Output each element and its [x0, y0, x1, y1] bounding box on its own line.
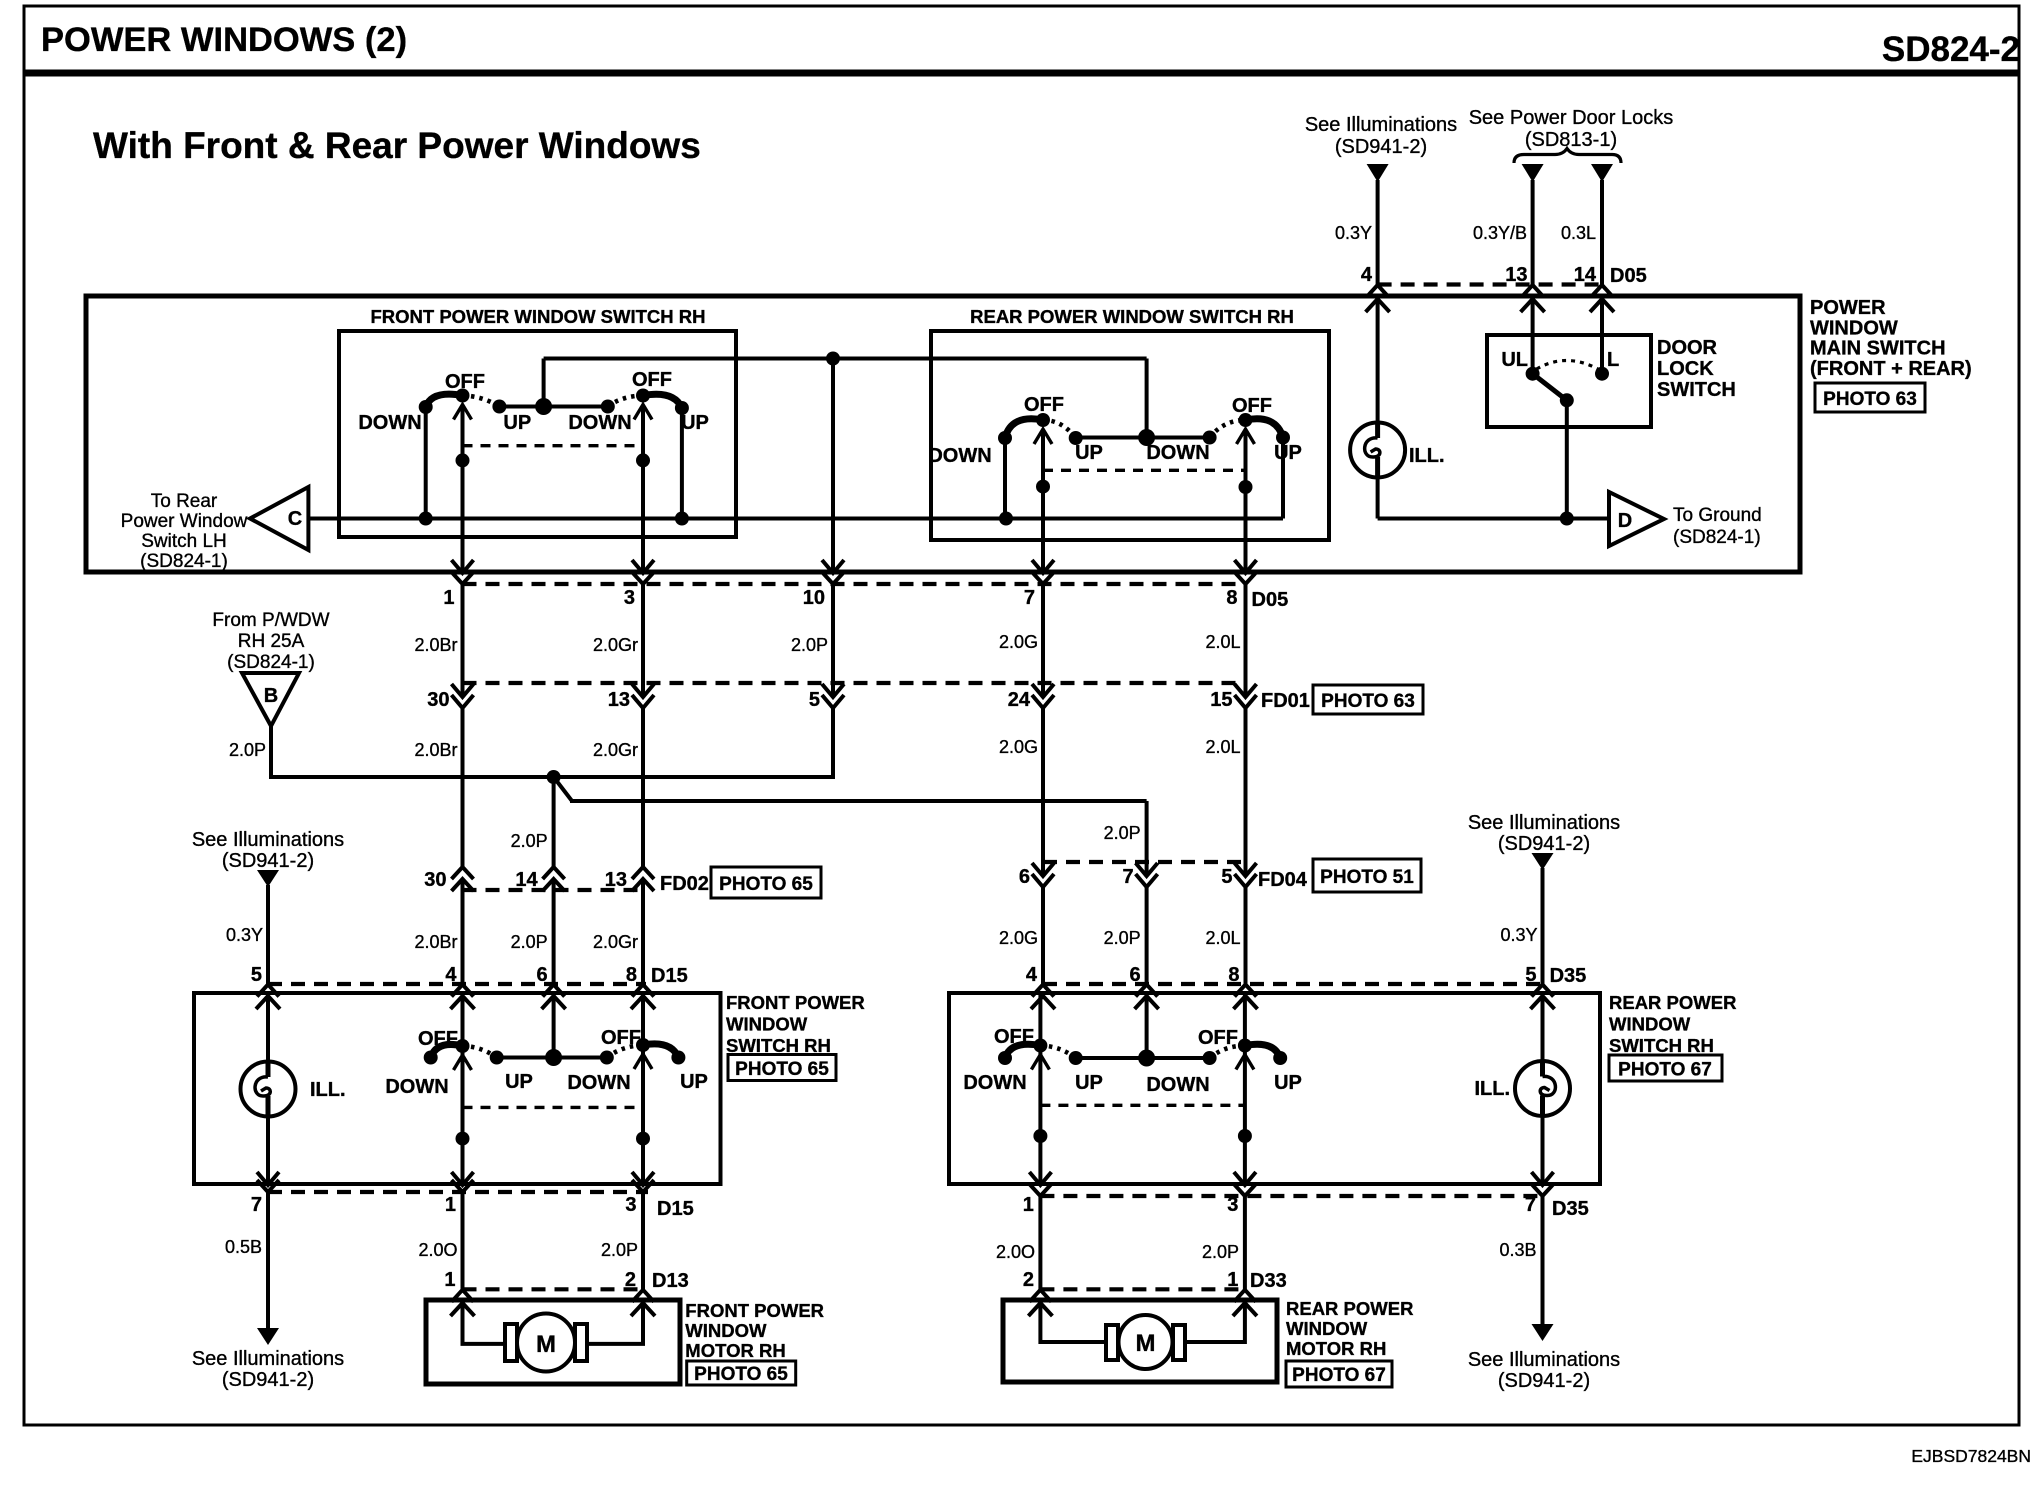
svg-text:2.0P: 2.0P	[1202, 1242, 1239, 1262]
svg-text:PHOTO 63: PHOTO 63	[1823, 389, 1917, 410]
svg-text:2.0Gr: 2.0Gr	[593, 740, 638, 760]
door lock switch label L	[1607, 349, 1619, 371]
label REAR POWER WINDOW SWITCH RH	[1609, 992, 1736, 1056]
svg-text:DOOR: DOOR	[1657, 337, 1718, 359]
rear door switch 1 OFF lever	[994, 1026, 1047, 1058]
svg-text:D35: D35	[1550, 965, 1587, 987]
svg-text:2.0L: 2.0L	[1205, 737, 1240, 757]
D15 pin 3 lower	[625, 1172, 654, 1216]
D05 pin 1	[443, 560, 473, 609]
wire D35 5 to rear lamp	[1541, 993, 1545, 1061]
page ref See Illuminations (SD941-2) left	[192, 829, 344, 872]
svg-text:ILL.: ILL.	[1474, 1078, 1510, 1100]
svg-text:14: 14	[515, 869, 538, 891]
FD01 pin 5	[809, 684, 844, 711]
wire 2.0Br (FD02 30 to D15 4)	[414, 879, 462, 984]
svg-text:MOTOR RH: MOTOR RH	[685, 1340, 785, 1361]
svg-text:OFF: OFF	[1232, 395, 1272, 417]
front door switch 1 DOWN contact	[385, 1051, 448, 1099]
wire 2.0P (FD04 7 to D35 6)	[1104, 887, 1147, 984]
front switch 1 common wire to pin 1	[456, 405, 470, 573]
wire from top interconnect to D05 pin 10	[831, 359, 835, 573]
svg-text:OFF: OFF	[445, 371, 485, 393]
svg-text:(SD813-1): (SD813-1)	[1525, 129, 1617, 151]
rear switch 1 OFF lever	[1005, 394, 1064, 438]
front door link junction	[545, 993, 562, 1066]
D05 pin 10	[803, 560, 844, 609]
svg-text:RH 25A: RH 25A	[238, 631, 305, 652]
svg-text:2.0L: 2.0L	[1205, 632, 1240, 652]
rear link junction	[1138, 359, 1155, 447]
svg-text:2.0Gr: 2.0Gr	[593, 932, 638, 952]
PHOTO 65 tag (front switch)	[728, 1055, 836, 1081]
svg-text:3: 3	[1227, 1194, 1238, 1216]
svg-text:1: 1	[445, 1194, 456, 1216]
rear motor M	[1106, 1315, 1185, 1369]
page code SD824-2	[1882, 30, 2020, 69]
svg-text:5: 5	[251, 964, 262, 986]
diagram id EJBSD7824BN	[1911, 1446, 2031, 1466]
front door switch 2 common wire pin 8 to pin 3	[636, 993, 650, 1184]
PHOTO 63 tag (FD01)	[1313, 685, 1423, 714]
svg-text:DOWN: DOWN	[567, 1072, 630, 1094]
rear door switch 1 DOWN contact	[963, 1051, 1026, 1094]
svg-text:UP: UP	[680, 1071, 708, 1093]
front door switch 2 DOWN contact	[567, 1051, 630, 1095]
page title	[41, 21, 407, 59]
D05 pin 3	[624, 560, 654, 609]
arrow into wire 0.3Y/B	[1522, 164, 1544, 182]
rear UP1-DOWN2 link wire	[1076, 436, 1210, 440]
D35 pin 7 lower	[1525, 1172, 1554, 1216]
wire 2.0P (D05 10 to FD01 5)	[791, 584, 833, 697]
svg-text:10: 10	[803, 587, 825, 609]
svg-text:M: M	[536, 1331, 556, 1358]
rear switch 1 common wire to pin 7	[1036, 429, 1050, 572]
svg-text:LOCK: LOCK	[1657, 358, 1714, 380]
front switch 2 DOWN contact	[568, 400, 631, 435]
wire 2.0P (D15 3 to D13 2)	[601, 1192, 643, 1289]
svg-text:7: 7	[1024, 587, 1035, 609]
svg-text:D15: D15	[657, 1198, 694, 1220]
ground bus wire to connector C	[308, 512, 1283, 526]
svg-text:D15: D15	[651, 965, 688, 987]
wire 2.0Gr (D05 3 to FD01 13)	[593, 584, 643, 697]
svg-text:(SD824-1): (SD824-1)	[1673, 527, 1761, 548]
rear door switch 1 UP contact	[1040, 1046, 1102, 1095]
svg-text:1: 1	[1227, 1269, 1238, 1291]
arrow into wire 0.3Y	[1367, 164, 1389, 182]
ground wire lamp to connector D	[1378, 517, 1609, 521]
svg-text:(SD941-2): (SD941-2)	[222, 1369, 314, 1391]
connector B from P/WDW fuse	[242, 673, 299, 726]
svg-text:SWITCH RH: SWITCH RH	[726, 1035, 831, 1056]
wire 2.0P (feed to FD04 7)	[1104, 801, 1147, 876]
svg-text:4: 4	[445, 964, 457, 986]
wire 2.0Gr (FD02 13 to D15 8)	[593, 879, 643, 984]
rear switch 2 common wire to pin 8	[1239, 429, 1253, 572]
svg-text:2.0P: 2.0P	[601, 1240, 638, 1260]
svg-text:POWER: POWER	[1810, 297, 1886, 319]
svg-text:1: 1	[444, 1269, 455, 1291]
power window main switch box	[86, 296, 1800, 572]
door lock L contact	[1595, 296, 1609, 381]
svg-text:MAIN SWITCH: MAIN SWITCH	[1810, 338, 1946, 360]
svg-text:2.0Br: 2.0Br	[414, 932, 457, 952]
D15 pin 7 lower	[251, 1172, 279, 1216]
svg-text:(FRONT + REAR): (FRONT + REAR)	[1810, 358, 1972, 380]
svg-text:See Illuminations: See Illuminations	[1468, 812, 1620, 834]
svg-text:6: 6	[1019, 866, 1030, 888]
D15 pin 4 upper	[445, 964, 474, 1009]
svg-text:24: 24	[1008, 689, 1031, 711]
svg-text:PHOTO 63: PHOTO 63	[1321, 691, 1415, 712]
wire 0.3Y to D15 pin 5	[226, 885, 268, 984]
wire 2.0P (D35 3 to D33 1)	[1202, 1196, 1245, 1289]
door lock switch box	[1487, 335, 1651, 427]
door lock switch label UL	[1501, 349, 1528, 371]
svg-text:3: 3	[624, 587, 635, 609]
svg-text:(SD824-1): (SD824-1)	[140, 551, 228, 572]
D35 pin 4 upper	[1026, 964, 1055, 1009]
svg-text:0.3Y: 0.3Y	[226, 925, 263, 945]
svg-text:PHOTO 67: PHOTO 67	[1618, 1060, 1712, 1081]
wire 0.5B (D15 7 to illuminations)	[225, 1192, 268, 1328]
D35 pin 5 upper	[1525, 964, 1554, 1009]
svg-text:13: 13	[605, 869, 627, 891]
svg-text:PHOTO 51: PHOTO 51	[1320, 867, 1414, 888]
svg-text:REAR POWER: REAR POWER	[1609, 992, 1736, 1013]
rear door switch 2 UP contact	[1245, 1044, 1302, 1094]
svg-text:DOWN: DOWN	[1146, 442, 1209, 464]
svg-text:With Front & Rear Power Window: With Front & Rear Power Windows	[93, 125, 701, 166]
svg-text:OFF: OFF	[994, 1026, 1034, 1048]
svg-text:WINDOW: WINDOW	[1810, 317, 1898, 339]
svg-text:EJBSD7824BN: EJBSD7824BN	[1911, 1446, 2031, 1466]
svg-text:6: 6	[1129, 964, 1140, 986]
illumination lamp (front switch)	[241, 1062, 346, 1117]
svg-text:C: C	[288, 508, 302, 530]
rear switch 2 OFF lever	[1210, 395, 1272, 438]
svg-text:13: 13	[1505, 264, 1527, 286]
svg-text:FRONT POWER WINDOW SWITCH RH: FRONT POWER WINDOW SWITCH RH	[370, 306, 705, 327]
front door switch 1 common arrow	[454, 1055, 472, 1070]
svg-text:FD02: FD02	[660, 873, 709, 895]
wire lamp to ground bus	[1376, 478, 1380, 519]
wire 2.0O (D35 1 to D33 2)	[996, 1196, 1040, 1289]
label REAR POWER WINDOW MOTOR RH	[1286, 1298, 1413, 1359]
svg-text:8: 8	[1228, 964, 1239, 986]
page ref See Illuminations (SD941-2) bottom right	[1468, 1349, 1620, 1392]
wire 2.0G (FD04 6 to D35 4)	[999, 887, 1043, 984]
label DOOR LOCK SWITCH	[1657, 337, 1736, 401]
front UP1-DOWN2 link wire	[499, 405, 607, 409]
svg-text:See Illuminations: See Illuminations	[1468, 1349, 1620, 1371]
front switch 2 UP contact	[643, 394, 709, 518]
svg-text:FD04: FD04	[1258, 869, 1308, 891]
D05 pin 4	[1361, 264, 1390, 312]
svg-text:(SD941-2): (SD941-2)	[222, 850, 314, 872]
illumination lamp (rear switch)	[1474, 1061, 1570, 1116]
svg-text:2.0P: 2.0P	[1104, 823, 1141, 843]
svg-text:D: D	[1618, 510, 1632, 532]
FD01 pin 30	[427, 684, 473, 711]
rear switches mechanical link	[1043, 469, 1246, 472]
rear power window switch RH section box	[931, 306, 1329, 540]
svg-text:2: 2	[1023, 1269, 1034, 1291]
D05 pin 13	[1505, 264, 1544, 312]
connector FD02	[463, 873, 709, 895]
svg-text:2.0P: 2.0P	[1104, 928, 1141, 948]
svg-text:4: 4	[1361, 264, 1373, 286]
wire 2.0O (D15 1 to D13 1)	[418, 1192, 462, 1289]
connector D05 lower row	[463, 584, 1289, 611]
connector C to rear power window switch LH	[250, 487, 308, 550]
svg-text:Power Window: Power Window	[121, 511, 248, 532]
D05 pin 7	[1024, 560, 1054, 609]
front switch 2 common arrow	[634, 405, 652, 420]
connector D35 upper row	[1043, 965, 1586, 987]
front switch 2 OFF lever	[608, 369, 672, 407]
svg-text:2.0P: 2.0P	[229, 740, 266, 760]
rear door link junction	[1138, 993, 1155, 1067]
FD01 pin 24	[1008, 684, 1054, 711]
door lock lever	[1533, 374, 1574, 408]
svg-text:13: 13	[608, 689, 630, 711]
wire 2.0P (feed to FD02 14)	[511, 779, 554, 867]
front door switch 1 UP contact	[463, 1046, 533, 1093]
rear switch 1 common arrow	[1034, 429, 1052, 444]
page ref See Illuminations (SD941-2) right	[1468, 812, 1620, 855]
svg-text:DOWN: DOWN	[928, 445, 991, 467]
label From P/WDW RH 25A (SD824-1)	[212, 610, 329, 673]
front door switch 1 common wire pin 4 to pin 1	[456, 993, 470, 1184]
D35 pin 3 lower	[1227, 1172, 1256, 1216]
page ref See Illuminations (SD941-2) top	[1305, 114, 1457, 158]
PHOTO 63 tag (main switch)	[1815, 383, 1925, 412]
connector D33	[1040, 1270, 1286, 1292]
wire FD01 5 down to feed wire	[831, 708, 835, 779]
D35 pin 6 upper	[1129, 964, 1158, 1009]
svg-text:To Rear: To Rear	[151, 491, 218, 512]
connector D13	[463, 1270, 689, 1292]
page ref See Illuminations (SD941-2) bottom left	[192, 1348, 344, 1391]
wire 2.0G (FD01 24 to FD04 6)	[999, 708, 1043, 876]
diagram subtitle	[93, 125, 701, 166]
svg-text:OFF: OFF	[1198, 1027, 1238, 1049]
wire 0.3Y/B to D05 pin 13	[1473, 180, 1533, 285]
FD01 pin 15	[1210, 684, 1256, 711]
arrow to See Illuminations bottom left	[257, 1328, 279, 1345]
wire 2.0L (FD01 15 to FD04 5)	[1205, 708, 1245, 876]
PHOTO 67 tag (rear motor)	[1286, 1361, 1392, 1387]
wire 0.3B (D35 7 to illuminations)	[1499, 1196, 1542, 1324]
svg-text:UP: UP	[1075, 1072, 1103, 1094]
wire 2.0G (D05 7 to FD01 24)	[999, 584, 1043, 697]
svg-text:OFF: OFF	[632, 369, 672, 391]
svg-text:(SD941-2): (SD941-2)	[1498, 833, 1590, 855]
front switch 1 DOWN contact	[358, 400, 432, 519]
rear motor wire pin 2	[1040, 1300, 1106, 1342]
label To Rear Power Window Switch LH (SD824-1)	[121, 491, 248, 572]
svg-text:15: 15	[1210, 689, 1232, 711]
svg-text:(SD941-2): (SD941-2)	[1335, 136, 1427, 158]
rear power window switch RH box	[949, 993, 1600, 1184]
svg-text:2.0G: 2.0G	[999, 737, 1038, 757]
svg-text:3: 3	[625, 1194, 636, 1216]
svg-text:PHOTO 65: PHOTO 65	[735, 1059, 829, 1080]
front door UP1-DOWN2 link wire	[497, 1056, 607, 1060]
svg-text:DOWN: DOWN	[963, 1072, 1026, 1094]
svg-text:WINDOW: WINDOW	[685, 1320, 767, 1341]
wire D05 pin 4 to lamp	[1376, 296, 1380, 423]
rear switch 1 DOWN contact	[928, 431, 1012, 519]
PHOTO 67 tag (rear switch)	[1609, 1055, 1722, 1081]
svg-text:POWER WINDOWS (2): POWER WINDOWS (2)	[41, 21, 407, 59]
svg-text:FRONT POWER: FRONT POWER	[685, 1300, 824, 1321]
illumination lamp (main switch)	[1350, 423, 1444, 478]
front switch 2 common wire to pin 3	[636, 405, 650, 573]
rear switch 2 DOWN contact	[1146, 431, 1216, 465]
feed branch diagonal	[554, 777, 572, 801]
svg-text:UP: UP	[503, 412, 531, 434]
svg-text:(SD824-1): (SD824-1)	[227, 652, 315, 673]
svg-text:REAR POWER: REAR POWER	[1286, 1298, 1413, 1319]
svg-text:D33: D33	[1250, 1270, 1287, 1292]
svg-text:SWITCH RH: SWITCH RH	[1609, 1035, 1714, 1056]
svg-text:Switch LH: Switch LH	[141, 531, 227, 552]
FD02 pin 30	[424, 867, 473, 891]
svg-text:SWITCH: SWITCH	[1657, 379, 1736, 401]
label FRONT POWER WINDOW MOTOR RH	[685, 1300, 824, 1361]
svg-text:B: B	[264, 685, 278, 707]
svg-text:2.0P: 2.0P	[511, 831, 548, 851]
wire rear lamp to D35 7	[1541, 1116, 1545, 1184]
FD01 pin 13	[608, 684, 654, 711]
front power window motor RH box	[426, 1300, 680, 1384]
arrow to See Illuminations bottom right	[1532, 1324, 1554, 1341]
FD04 pin 6	[1019, 863, 1054, 888]
wire 2.0P from B	[229, 726, 271, 779]
svg-text:DOWN: DOWN	[568, 412, 631, 434]
svg-text:30: 30	[424, 869, 446, 891]
svg-text:DOWN: DOWN	[358, 412, 421, 434]
svg-text:0.3B: 0.3B	[1499, 1240, 1536, 1260]
D33 pin 2	[1023, 1269, 1053, 1316]
rear door UP1-DOWN2 link wire	[1076, 1056, 1210, 1060]
svg-text:D05: D05	[1252, 589, 1289, 611]
svg-text:FD01: FD01	[1261, 690, 1310, 712]
feed wire B to column 2.0P	[271, 775, 833, 779]
D13 pin 1	[444, 1269, 474, 1316]
front door switches mechanical link	[463, 1106, 644, 1109]
front door switch 2 common arrow	[634, 1054, 652, 1069]
wire 2.0L (D05 8 to FD01 15)	[1205, 584, 1245, 697]
svg-text:UP: UP	[681, 412, 709, 434]
svg-text:UP: UP	[1075, 442, 1103, 464]
front power window switch RH section box	[339, 306, 736, 537]
door lock dashed arc	[1537, 361, 1598, 370]
svg-text:ILL.: ILL.	[310, 1079, 346, 1101]
wire 2.0P (FD02 14 to D15 6)	[511, 879, 554, 984]
svg-text:WINDOW: WINDOW	[726, 1014, 808, 1035]
front door switch 2 OFF lever	[601, 1027, 650, 1058]
wire 2.0Gr (FD01 13 to FD02 13)	[593, 708, 643, 867]
svg-text:0.3Y/B: 0.3Y/B	[1473, 223, 1527, 243]
svg-text:7: 7	[251, 1194, 262, 1216]
rear door switches mechanical link	[1040, 1104, 1245, 1107]
top interconnect wire	[544, 352, 1147, 366]
svg-text:1: 1	[443, 587, 454, 609]
svg-text:2.0Gr: 2.0Gr	[593, 635, 638, 655]
front door switch 2 UP contact	[643, 1044, 708, 1093]
svg-text:PHOTO 65: PHOTO 65	[694, 1364, 788, 1385]
svg-text:DOWN: DOWN	[385, 1076, 448, 1098]
svg-text:SD824-2: SD824-2	[1882, 30, 2020, 69]
rear switch 2 UP contact	[1246, 419, 1302, 519]
svg-text:5: 5	[1221, 866, 1232, 888]
wire door lock lever to ground	[1560, 400, 1574, 525]
front switches mechanical link	[463, 444, 644, 447]
svg-text:2.0P: 2.0P	[791, 635, 828, 655]
svg-text:MOTOR RH: MOTOR RH	[1286, 1338, 1386, 1359]
svg-text:To Ground: To Ground	[1673, 505, 1762, 526]
svg-text:L: L	[1607, 349, 1619, 371]
svg-text:See Illuminations: See Illuminations	[192, 1348, 344, 1370]
svg-text:UL: UL	[1501, 349, 1528, 371]
brace over door lock wires	[1514, 149, 1621, 164]
svg-text:WINDOW: WINDOW	[1286, 1318, 1368, 1339]
svg-text:1: 1	[1023, 1194, 1034, 1216]
svg-text:PHOTO 67: PHOTO 67	[1292, 1365, 1386, 1386]
D15 pin 6 upper	[536, 964, 565, 1009]
svg-text:WINDOW: WINDOW	[1609, 1014, 1691, 1035]
front link junction	[535, 359, 552, 416]
label POWER WINDOW MAIN SWITCH (FRONT + REAR)	[1810, 297, 1972, 380]
wire 2.0L (FD04 5 to D35 8)	[1205, 887, 1245, 984]
svg-text:0.3Y: 0.3Y	[1335, 223, 1372, 243]
arrow into wire 0.3Y left	[257, 870, 279, 887]
svg-text:PHOTO 65: PHOTO 65	[719, 874, 813, 895]
D15 pin 5 upper	[251, 964, 280, 1009]
connector FD04	[1043, 862, 1308, 891]
svg-text:UP: UP	[505, 1071, 533, 1093]
rear door switch 1 common wire pin 4 to pin 1	[1033, 993, 1047, 1184]
label To Ground (SD824-1)	[1673, 505, 1762, 548]
svg-text:OFF: OFF	[418, 1028, 458, 1050]
svg-text:See Power Door Locks: See Power Door Locks	[1469, 107, 1674, 129]
svg-text:2.0P: 2.0P	[511, 932, 548, 952]
svg-text:UP: UP	[1274, 442, 1302, 464]
door lock UL contact	[1526, 296, 1540, 381]
svg-text:30: 30	[427, 689, 449, 711]
svg-text:D05: D05	[1610, 265, 1647, 287]
svg-text:0.3L: 0.3L	[1561, 223, 1596, 243]
rear door switch 2 common wire pin 8 to pin 3	[1238, 993, 1252, 1184]
svg-text:M: M	[1136, 1330, 1156, 1357]
PHOTO 51 tag (FD04)	[1313, 859, 1421, 892]
D33 pin 1	[1227, 1269, 1257, 1316]
svg-text:OFF: OFF	[601, 1027, 641, 1049]
svg-text:(SD941-2): (SD941-2)	[1498, 1370, 1590, 1392]
svg-text:4: 4	[1026, 964, 1038, 986]
FD02 pin 13	[605, 867, 654, 891]
svg-text:ILL.: ILL.	[1409, 445, 1445, 467]
rear power window motor RH box	[1003, 1300, 1277, 1382]
D05 pin 8	[1226, 560, 1256, 609]
feed junction	[547, 770, 561, 784]
svg-text:0.3Y: 0.3Y	[1500, 925, 1537, 945]
